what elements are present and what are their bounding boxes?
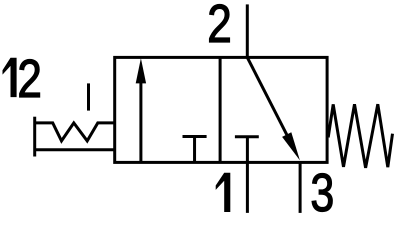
valve body V1 — [115, 57, 327, 162]
return spring — [328, 104, 392, 168]
blocked port T left — [183, 137, 207, 163]
port 12 leader line — [87, 83, 90, 110]
svg-text:2: 2 — [17, 49, 42, 109]
flow path diagonal (2 to 3) — [247, 57, 292, 145]
label port 3 — [310, 163, 334, 223]
blocked port T right — [235, 135, 259, 138]
pilot 12 end bar — [33, 117, 36, 157]
flow arrow head — [136, 58, 146, 83]
position divider — [219, 57, 222, 162]
pilot 12 top rail with zigzag — [35, 123, 115, 141]
flow arrow shaft (position a, 1 to 2) — [139, 82, 142, 162]
pilot 12 bottom rail — [35, 148, 115, 151]
label port 2 — [207, 0, 232, 54]
label port 12 — [3, 58, 17, 97]
label port 1 — [216, 173, 231, 212]
svg-text:2: 2 — [207, 0, 232, 54]
port 1 line — [246, 137, 249, 213]
svg-text:3: 3 — [310, 163, 334, 216]
port 2 line — [246, 4, 249, 57]
flow path arrow head — [282, 132, 300, 160]
port 3 line — [299, 162, 302, 213]
